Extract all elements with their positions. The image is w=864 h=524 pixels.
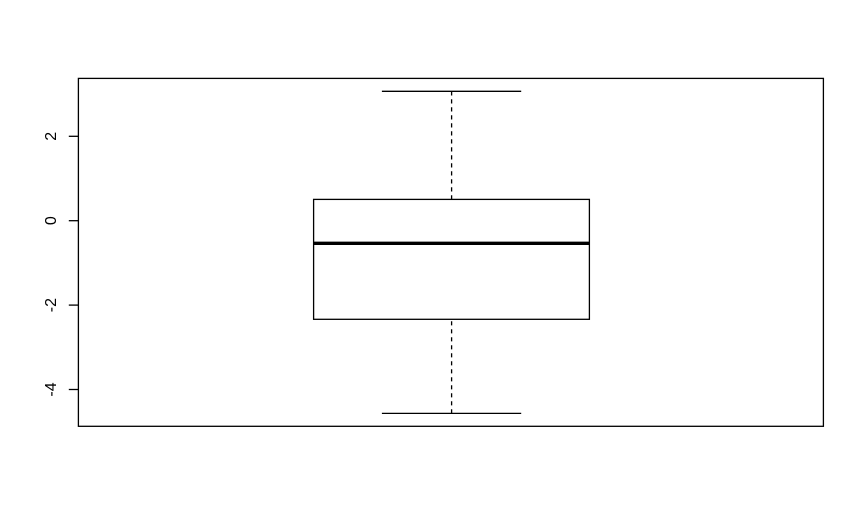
upper whisker cap: [382, 90, 521, 92]
plot border box: [78, 78, 823, 426]
y-axis tick 2: [69, 135, 79, 137]
svg-text:-4: -4: [43, 382, 60, 396]
lower whisker dashed line: [451, 319, 453, 413]
svg-text:-2: -2: [43, 298, 60, 312]
svg-text:0: 0: [43, 216, 60, 225]
svg-text:2: 2: [43, 132, 60, 141]
y-axis tick -4: [69, 389, 79, 391]
y-axis tick -2: [69, 304, 79, 306]
upper whisker dashed line: [451, 91, 453, 199]
lower whisker cap: [382, 412, 521, 414]
IQR box: [314, 199, 590, 319]
median line: [314, 242, 590, 245]
y-axis tick 0: [69, 220, 79, 222]
